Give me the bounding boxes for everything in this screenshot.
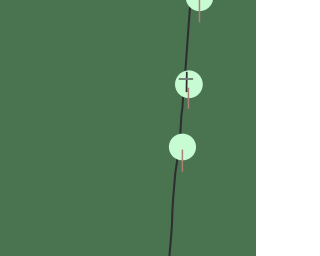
cross vertical on node 2 xyxy=(186,72,188,92)
wire main polyline xyxy=(169,0,190,256)
tick 1 xyxy=(198,0,200,22)
tick 3 xyxy=(181,150,183,172)
node circle 3 xyxy=(169,134,196,161)
cross horizontal on node 2 xyxy=(179,78,193,80)
node circle 2 xyxy=(175,70,203,98)
tick 2 xyxy=(187,88,189,109)
node circle 1 xyxy=(186,0,213,11)
